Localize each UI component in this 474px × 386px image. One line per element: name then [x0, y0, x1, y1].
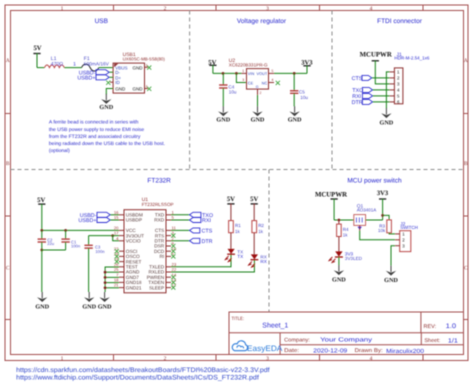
wire TXLED long	[171, 254, 231, 267]
J1 pin 1 stub	[390, 71, 395, 73]
svg-text:FTDI connector: FTDI connector	[377, 18, 423, 25]
wire F1 to USB1 VBUS	[99, 67, 113, 69]
wire U1 GND21 to ground bus	[105, 287, 119, 289]
J1 pin 5 stub	[390, 95, 395, 97]
svg-text:C5: C5	[299, 90, 305, 95]
svg-text:6: 6	[146, 85, 148, 89]
svg-text:5V: 5V	[227, 196, 235, 203]
svg-text:TITLE:: TITLE:	[232, 316, 245, 322]
svg-text:3: 3	[242, 78, 244, 82]
svg-text:2: 2	[164, 6, 167, 12]
svg-text:21: 21	[114, 283, 119, 288]
U1 pin GND21 (pin 21)	[119, 287, 124, 289]
connector USB1 UX60SC-MB-5S8(80)	[113, 63, 144, 93]
capacitor C3 100n	[88, 236, 90, 246]
svg-text:B: B	[6, 161, 10, 167]
svg-text:G: G	[256, 85, 259, 89]
svg-text:B: B	[464, 161, 468, 167]
wire Q1 gate to J2 pin 2	[360, 231, 395, 240]
wire LED to ground	[338, 257, 340, 265]
wire USBD+ to D+	[109, 76, 113, 78]
junction CE tap	[235, 72, 238, 75]
fuse F1 500mA/16V	[82, 64, 99, 71]
svg-text:GND: GND	[133, 65, 144, 70]
junction R3 tap	[381, 214, 384, 217]
no-connect X	[106, 81, 110, 85]
svg-text:Sheet:: Sheet:	[424, 338, 440, 344]
svg-text:from the FT232R and associated: from the FT232R and associated circuitry	[49, 134, 141, 140]
wire CTS pin to flag	[171, 229, 190, 231]
frame bottom ruler ticks	[113, 355, 115, 361]
wire DTR pin to flag	[171, 240, 190, 242]
J2 pin 3 stub	[395, 245, 400, 247]
svg-text:R4: R4	[343, 227, 349, 232]
no-connect X	[276, 81, 280, 85]
svg-text:5: 5	[272, 69, 274, 73]
junction AGND on ground bus	[104, 271, 107, 274]
svg-text:https://www.ftdichip.com/Suppo: https://www.ftdichip.com/Support/Documen…	[16, 374, 259, 381]
svg-text:NC: NC	[262, 80, 268, 85]
svg-text:RXD: RXD	[154, 218, 165, 223]
svg-text:Company:: Company:	[284, 337, 310, 343]
svg-text:3V3: 3V3	[377, 190, 389, 197]
svg-text:2: 2	[260, 91, 262, 95]
no-connect X on U1 DCD	[171, 249, 175, 253]
J2 pin 1 stub	[395, 233, 400, 235]
svg-text:Miraculix200: Miraculix200	[386, 348, 425, 355]
section divider vertical FT232R / MCU power switch	[268, 170, 270, 313]
svg-text:1.0: 1.0	[446, 323, 457, 330]
svg-text:GND: GND	[115, 87, 126, 92]
U1 pin DTR (pin 2)	[166, 240, 171, 242]
no-connect X on U1 PWREN	[171, 275, 175, 279]
capacitor C4 10u	[222, 73, 224, 85]
svg-text:(optional): (optional)	[49, 148, 70, 154]
ground under C2	[41, 292, 43, 298]
wire 5V to L1	[37, 67, 45, 69]
U1 pin PWREN (pin 14)	[166, 276, 171, 278]
svg-text:10k: 10k	[378, 228, 386, 233]
svg-text:GND: GND	[380, 119, 394, 126]
svg-text:GND: GND	[35, 303, 49, 310]
wire U1 GND7 to ground bus	[105, 276, 119, 278]
svg-text:GND: GND	[384, 277, 398, 284]
capacitor C5 10u	[293, 73, 295, 90]
no-connect X on U1 OSCO	[115, 254, 119, 258]
junction C3/3V3OUT/VCCIO	[111, 234, 114, 237]
U1 pin GND18 (pin 18)	[119, 281, 124, 283]
junction GND21 on ground bus	[104, 286, 107, 289]
U1 pin RI (pin 6)	[166, 255, 171, 257]
svg-text:A ferrite bead is connected in: A ferrite bead is connected in series wi…	[49, 120, 139, 126]
svg-text:1: 1	[61, 6, 64, 12]
svg-text:DTR: DTR	[202, 239, 213, 245]
no-connect X on U1 SLEEP	[171, 286, 175, 290]
no-connect X	[147, 87, 151, 91]
svg-text:TX: TX	[237, 254, 243, 259]
svg-text:F1: F1	[84, 56, 90, 62]
wire J1 pin 1 to ground	[386, 72, 389, 109]
svg-text:ID: ID	[115, 80, 120, 85]
J1 pin 4 stub	[390, 89, 395, 91]
inductor L1 470R	[45, 65, 65, 68]
svg-text:SLEEP: SLEEP	[149, 285, 164, 290]
wire USB1 GND pin	[106, 89, 113, 95]
U1 pin DCD (pin 10)	[166, 250, 171, 252]
LED 3V3LED	[335, 251, 342, 256]
ground symbol under USB1	[105, 94, 107, 100]
svg-text:22u: 22u	[47, 241, 54, 246]
svg-text:GND: GND	[82, 303, 96, 310]
svg-text:470Ω: 470Ω	[51, 61, 63, 67]
ground under 3V3LED	[338, 265, 340, 271]
ground under J1	[385, 108, 387, 114]
svg-text:C: C	[464, 266, 468, 272]
svg-text:GND21: GND21	[126, 285, 142, 290]
svg-text:MCUPWR: MCUPWR	[315, 192, 347, 199]
frame top ruler ticks	[113, 5, 115, 11]
ground under C4	[222, 106, 224, 112]
junction C5 tap	[293, 72, 296, 75]
wire CTS to pin 2	[372, 77, 390, 79]
svg-text:100n: 100n	[71, 243, 81, 248]
U1 pin USBDP (pin 15)	[119, 219, 124, 221]
svg-text:RX: RX	[260, 259, 266, 264]
no-connect X on U1 DSR	[171, 244, 175, 248]
USB1 shield pin stub bottom right + no-connect	[145, 88, 149, 90]
svg-text:GND: GND	[133, 87, 144, 92]
svg-text:R2: R2	[258, 223, 264, 228]
svg-text:Voltage regulator: Voltage regulator	[237, 18, 287, 25]
U1 pin CTS (pin 11)	[166, 229, 171, 231]
svg-text:USBD+: USBD+	[78, 218, 96, 224]
wire 3V3OUT to VCCIO	[113, 236, 119, 241]
svg-text:FT232RLSSOP: FT232RLSSOP	[142, 202, 174, 207]
USB1 ID pin no-connect	[110, 81, 113, 83]
net flag TXO (FT232R)	[190, 212, 201, 217]
svg-text:the USB power supply to reduce: the USB power supply to reduce EMI noise	[49, 127, 145, 133]
wire C1 bottom to C2 bottom	[42, 249, 66, 251]
EasyEDA logo	[232, 341, 247, 351]
svg-text:MCUPWR: MCUPWR	[360, 51, 392, 58]
wire USBD- to D-	[109, 71, 113, 73]
wire 3V3 to R3 top	[383, 215, 390, 220]
no-connect X on U1 RESET	[115, 260, 119, 264]
svg-text:CE: CE	[248, 80, 254, 85]
ground under U2	[257, 106, 259, 112]
title block sheet divider	[420, 333, 422, 345]
svg-text:GND: GND	[216, 117, 230, 124]
U1 pin TXLED (pin 23)	[166, 266, 171, 268]
J2 pin 2 stub	[395, 239, 400, 241]
U1 pin AGND (pin 25)	[119, 271, 124, 273]
svg-text:4: 4	[370, 6, 373, 12]
wire MCUPWR down to pin 3	[375, 61, 389, 84]
svg-text:GND: GND	[98, 303, 112, 310]
svg-text:1/1: 1/1	[448, 337, 459, 344]
ground under U1 gnd bus	[104, 292, 106, 298]
svg-text:500mA/16V: 500mA/16V	[84, 61, 110, 67]
U1 pin RTS (pin 3)	[166, 235, 171, 237]
section divider vertical Voltage regulator / FTDI connector	[331, 11, 333, 170]
frame left ruler ticks	[5, 113, 11, 115]
wire J2 pin 3 to ground	[391, 246, 395, 266]
svg-text:5V: 5V	[33, 45, 41, 52]
svg-text:VIN: VIN	[248, 71, 255, 76]
wire CE tie to VIN	[236, 73, 246, 82]
ground under C5	[294, 106, 296, 112]
switch J2 SWITCH	[400, 231, 411, 252]
resistor R1 1k	[229, 221, 234, 233]
svg-text:10u: 10u	[300, 95, 308, 100]
net flag CTS (FT232R)	[190, 228, 200, 233]
no-connect X on U1 OSCI	[115, 249, 119, 253]
wire Q1 drain to 3V3	[366, 219, 383, 221]
svg-text:DTR: DTR	[352, 100, 363, 106]
svg-text:XC6220B331PR-G: XC6220B331PR-G	[229, 62, 268, 67]
svg-text:2: 2	[164, 356, 167, 362]
svg-text:4: 4	[272, 78, 274, 82]
resistor R4 1k	[338, 220, 340, 224]
svg-text:3: 3	[266, 356, 269, 362]
svg-text:HDR-M-2.54_1x6: HDR-M-2.54_1x6	[394, 56, 430, 61]
LED RX	[251, 254, 258, 259]
svg-text:1: 1	[61, 356, 64, 362]
wire TXD to TXO flag	[171, 214, 190, 216]
U1 pin RXLED (pin 22)	[166, 271, 171, 273]
svg-text:R1: R1	[235, 223, 241, 228]
svg-text:Your Company: Your Company	[320, 337, 372, 344]
J1 pin 6 stub	[390, 101, 395, 103]
svg-text:1: 1	[73, 62, 76, 68]
wire R3 bottom to J2 pin 1	[389, 233, 395, 234]
svg-text:CTS: CTS	[352, 76, 363, 82]
svg-text:1k: 1k	[258, 229, 264, 234]
svg-text:VCCIO: VCCIO	[126, 239, 141, 244]
junction R4 tap	[338, 219, 341, 222]
svg-text:AO3401A: AO3401A	[357, 208, 377, 213]
no-connect X on U1 TXDEN	[171, 280, 175, 284]
net flag DTR (FT232R)	[190, 238, 200, 243]
svg-text:VOUT: VOUT	[256, 71, 267, 76]
U1 pin VCC (pin 20)	[119, 229, 124, 231]
no-connect X on U1 RI	[171, 254, 175, 258]
wire VOUT to 3V3	[274, 72, 307, 74]
svg-text:USBD+: USBD+	[77, 76, 95, 82]
U1 pin TEST (pin 26)	[119, 266, 124, 268]
frame right ruler ticks	[464, 113, 469, 115]
LED TX	[228, 249, 235, 254]
svg-text:REV:: REV:	[424, 324, 437, 330]
svg-text:SWITCH: SWITCH	[400, 225, 418, 230]
U2 pin stubs	[242, 72, 247, 74]
svg-text:10u: 10u	[229, 89, 237, 94]
junction 5V/C2/VCC	[40, 229, 43, 232]
U1 pin OSCI (pin 27)	[119, 250, 124, 252]
svg-text:https://cdn.sparkfun.com/datas: https://cdn.sparkfun.com/datasheets/Brea…	[16, 367, 270, 374]
U1 pin DSR (pin 9)	[166, 245, 171, 247]
svg-text:4: 4	[370, 356, 373, 362]
svg-text:GND: GND	[251, 117, 265, 124]
svg-text:RXI: RXI	[202, 218, 211, 224]
U1 pin RESET (pin 19)	[119, 261, 124, 263]
U1 pin 3V3OUT (pin 17)	[119, 235, 124, 237]
svg-text:MCU power switch: MCU power switch	[347, 178, 402, 185]
junction GND7 on ground bus	[104, 276, 107, 279]
svg-text:A: A	[6, 58, 10, 64]
U1 pin USBDM (pin 16)	[119, 214, 124, 216]
title block logo divider	[279, 333, 281, 355]
IC U1 FT232RLSSOP	[124, 210, 166, 293]
svg-text:C: C	[6, 266, 10, 272]
wire L1 to F1	[64, 67, 81, 69]
svg-text:3V3LED: 3V3LED	[345, 256, 363, 261]
U1 pin GND7 (pin 7)	[119, 276, 124, 278]
header J1 HDR-M-2.54_1x6	[394, 68, 403, 104]
title block row line 1	[229, 332, 464, 334]
svg-text:CTS: CTS	[202, 229, 213, 235]
svg-text:UX60SC-MB-5S8(80): UX60SC-MB-5S8(80)	[123, 56, 166, 61]
svg-text:EasyEDA: EasyEDA	[247, 344, 283, 353]
svg-text:5V: 5V	[250, 196, 258, 203]
svg-text:GND: GND	[99, 104, 113, 111]
svg-text:RI: RI	[160, 254, 165, 259]
title block row line 2	[280, 344, 463, 346]
wire U1 AGND to ground bus	[105, 271, 119, 273]
resistor R2 1k	[252, 221, 257, 233]
regulator U2 XC6220B331PR-G	[247, 69, 269, 90]
svg-text:1k: 1k	[343, 232, 349, 237]
svg-text:A: A	[464, 58, 468, 64]
title block outline	[229, 312, 464, 355]
wire down to ground (C2/C1)	[41, 250, 43, 292]
U1 pin TXDEN (pin 13)	[166, 281, 171, 283]
svg-text:5: 5	[146, 63, 148, 67]
no-connect X	[147, 66, 151, 70]
J1 pin 2 stub	[390, 77, 395, 79]
svg-text:1: 1	[242, 69, 244, 73]
svg-text:FT232R: FT232R	[147, 178, 171, 185]
ground under C3	[88, 292, 90, 298]
svg-text:1k: 1k	[235, 229, 241, 234]
U1 pin RXD (pin 5)	[166, 219, 171, 221]
wire VCC rail	[42, 229, 119, 231]
section divider horizontal	[11, 169, 464, 171]
U1 pin OSCO (pin 28)	[119, 255, 124, 257]
svg-text:GND: GND	[288, 117, 302, 124]
svg-text:3: 3	[266, 6, 269, 12]
U1 pin SLEEP (pin 12)	[166, 287, 171, 289]
net flag RXI (FT232R)	[190, 218, 201, 223]
svg-text:Date:: Date:	[284, 348, 299, 354]
junction GND18 on ground bus	[104, 281, 107, 284]
junction C2/C1 ground	[40, 249, 43, 252]
capacitor C2 22u	[41, 230, 43, 239]
U1 pin VCCIO (pin 4)	[119, 240, 124, 242]
title block REV divider	[420, 312, 422, 333]
wire RXD to RXI flag	[171, 219, 190, 221]
section divider vertical USB / Voltage regulator	[189, 11, 191, 170]
svg-text:GND: GND	[332, 276, 346, 283]
wire TXO to pin 4	[373, 89, 390, 91]
wire DTR to pin 6	[373, 101, 390, 103]
USB1 shield pin stub top right + no-connect	[145, 66, 149, 68]
svg-text:15: 15	[114, 215, 119, 220]
svg-text:being radiated down the USB ca: being radiated down the USB cable to the…	[49, 141, 165, 147]
wire TEST to ground bus	[105, 267, 119, 292]
J1 pin 3 stub	[390, 83, 395, 85]
wire U1 GND18 to ground bus	[105, 282, 119, 284]
ground under J2	[390, 266, 392, 272]
svg-text:USB: USB	[95, 18, 108, 25]
svg-text:Sheet_1: Sheet_1	[262, 322, 288, 330]
wire MCUPWR to Q1	[334, 219, 354, 221]
wire 5V to U2 VIN	[213, 72, 242, 74]
capacitor C1 100n	[65, 230, 67, 239]
junction	[222, 72, 225, 75]
junction C1 tap	[64, 229, 67, 232]
U1 pin TXD (pin 1)	[166, 214, 171, 216]
svg-text:100n: 100n	[95, 249, 105, 254]
svg-text:Drawn By:: Drawn By:	[355, 348, 383, 354]
wire C3 to 3V3OUT/VCCIO	[89, 235, 113, 237]
wire RXI to pin 5	[373, 95, 390, 97]
svg-text:USBDP: USBDP	[126, 218, 142, 223]
svg-text:5V: 5V	[37, 197, 45, 204]
wire RXLED long	[171, 260, 254, 272]
resistor R3 10k	[387, 220, 392, 233]
no-connect X on U1 RTS	[171, 234, 175, 238]
svg-text:2020-12-09: 2020-12-09	[313, 348, 348, 355]
wire U2 GND pin to ground	[257, 95, 259, 107]
